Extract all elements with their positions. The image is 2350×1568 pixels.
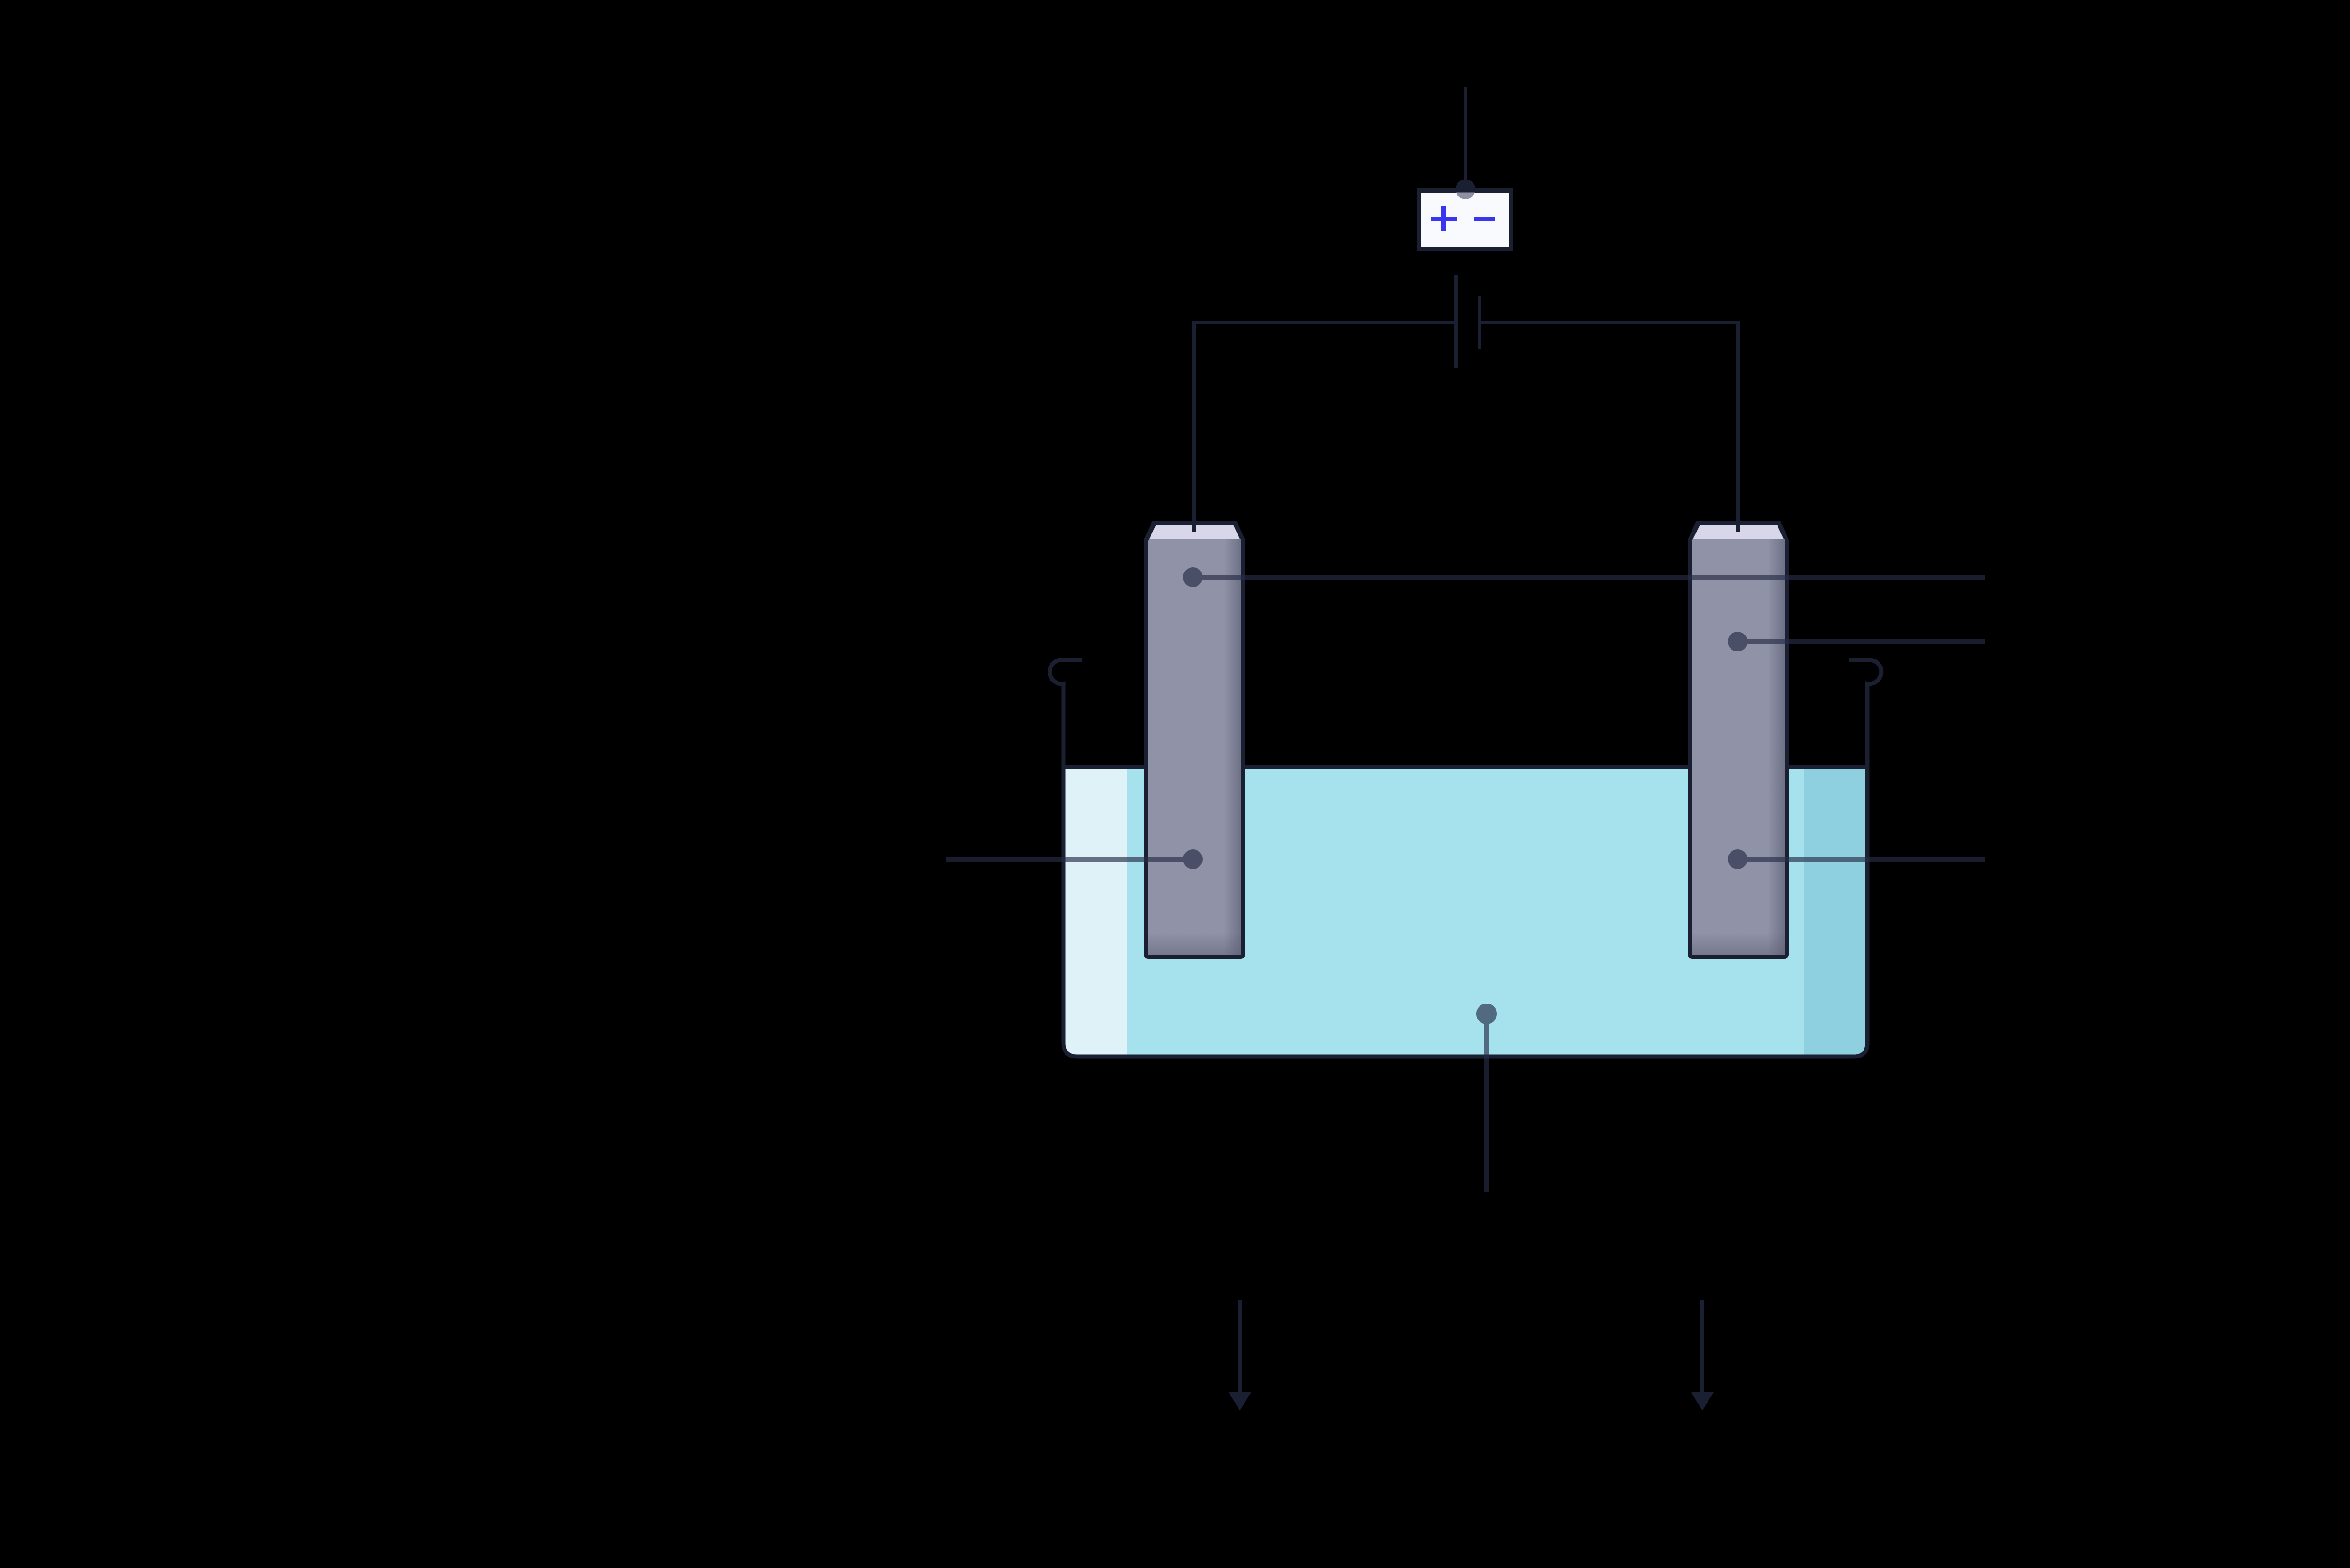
callout: right electrode top node and line bbox=[1728, 632, 1985, 651]
left electrode (anode) outline bbox=[1144, 521, 1245, 959]
callout: left electrode top node and line bbox=[1183, 567, 1985, 587]
right electrode top face bbox=[1693, 525, 1783, 539]
wire right branch bbox=[1481, 322, 1738, 532]
callout: electrolyte node and line bbox=[1476, 1004, 1497, 1192]
battery short plate (-) bbox=[1478, 296, 1481, 349]
liquid surface line bbox=[1065, 765, 1865, 769]
left electrode top face bbox=[1150, 525, 1239, 539]
battery label connector dot bbox=[1456, 180, 1475, 199]
minus sign bbox=[1474, 217, 1495, 221]
electrolyte liquid fill bbox=[1065, 769, 1865, 1055]
battery label box bbox=[1417, 188, 1513, 251]
left electrode right shading bbox=[1224, 539, 1241, 955]
callout: right electrode bottom node and line bbox=[1728, 849, 1985, 869]
left electrode bottom shading bbox=[1148, 933, 1241, 955]
liquid left highlight strip bbox=[1065, 769, 1127, 1055]
wire from battery label to battery bbox=[1464, 87, 1467, 184]
callout: left electrode bottom node and line bbox=[946, 849, 1203, 869]
right electrode bottom shading bbox=[1692, 933, 1785, 955]
right electrode (cathode) outline bbox=[1688, 521, 1789, 959]
beaker outline bbox=[1050, 660, 1881, 1057]
right electrode body bbox=[1692, 525, 1785, 955]
right arrow bbox=[1700, 1300, 1704, 1393]
wire left branch bbox=[1194, 322, 1454, 532]
plus sign bbox=[1441, 206, 1446, 231]
liquid right shade strip bbox=[1804, 769, 1865, 1055]
left arrow bbox=[1238, 1300, 1242, 1393]
left electrode body bbox=[1148, 525, 1241, 955]
right electrode right shading bbox=[1768, 539, 1785, 955]
battery long plate (+) bbox=[1454, 275, 1458, 368]
